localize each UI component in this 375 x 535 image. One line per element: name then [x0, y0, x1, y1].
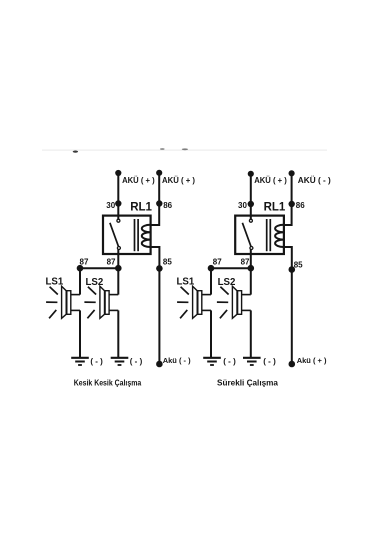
svg-text:85: 85	[294, 260, 303, 269]
wire coil to pin 85	[150, 247, 159, 364]
relay switch top contact	[249, 219, 252, 222]
scan artifact faint top edge line	[42, 150, 327, 151]
svg-text:86: 86	[296, 201, 305, 210]
svg-text:( - ): ( - )	[130, 357, 143, 366]
ground symbol for LS1	[71, 358, 89, 365]
relay switch top contact	[117, 219, 120, 222]
svg-text:RL1: RL1	[130, 201, 152, 213]
node 87 junction left	[78, 266, 83, 271]
svg-text:86: 86	[163, 201, 172, 210]
relay RL1 body	[235, 216, 284, 254]
sound rays of LS1	[177, 287, 189, 319]
node pin 85	[290, 267, 295, 272]
svg-text:85: 85	[163, 257, 172, 266]
loudspeaker LS2	[232, 286, 250, 318]
node 87 junction right	[249, 266, 254, 271]
wire coil to pin 85	[284, 247, 292, 364]
relay coil winding	[275, 225, 284, 247]
node battery terminal Akü ( - )	[157, 362, 162, 367]
svg-text:( - ): ( - )	[223, 357, 236, 366]
sound rays of LS2	[84, 287, 96, 319]
relay switch blade	[242, 223, 251, 247]
node 87 junction right	[116, 266, 121, 271]
wire battery to pin 30	[117, 173, 119, 219]
wire 87 bus	[80, 267, 118, 269]
wire 87 junction to speaker LS1	[210, 268, 212, 294]
svg-text:AKÜ ( + ): AKÜ ( + )	[122, 176, 155, 185]
wire pin 87 from relay	[117, 250, 119, 269]
wire battery to pin 86	[284, 173, 292, 225]
wire speaker LS1 to ground	[79, 310, 81, 357]
ground symbol for LS2	[111, 358, 129, 365]
scan artifact dark dash	[73, 151, 78, 153]
svg-text:AKÜ ( + ): AKÜ ( + )	[254, 176, 287, 185]
wire battery to pin 86	[150, 173, 159, 225]
node battery terminal AKÜ ( + )	[249, 172, 253, 176]
svg-text:87: 87	[241, 258, 250, 267]
relay coil core	[134, 219, 136, 251]
svg-text:AKÜ ( + ): AKÜ ( + )	[162, 176, 195, 185]
loudspeaker LS2	[100, 286, 118, 318]
relay RL1 body	[103, 216, 151, 254]
relay coil core	[266, 219, 268, 251]
node battery terminal Akü ( + )	[290, 362, 295, 367]
wire pin 87 from relay	[250, 250, 252, 269]
svg-text:LS2: LS2	[86, 277, 104, 288]
wire 87 junction to speaker LS2	[117, 268, 119, 294]
svg-text:( - ): ( - )	[263, 357, 276, 366]
svg-text:Akü ( - ): Akü ( - )	[163, 356, 191, 365]
wire 87 bus	[211, 267, 251, 269]
scan artifact gray dash 2	[182, 148, 188, 150]
node battery terminal AKÜ ( - )	[290, 171, 294, 175]
svg-text:LS1: LS1	[177, 276, 195, 287]
node pin 86	[290, 202, 294, 206]
node pin 30	[249, 202, 253, 206]
wire speaker LS2 to ground	[250, 310, 252, 357]
scan artifact gray dash 1	[160, 148, 165, 150]
svg-text:RL1: RL1	[264, 201, 286, 213]
ground symbol for LS1	[203, 358, 221, 365]
sound rays of LS2	[217, 287, 229, 319]
svg-text:87: 87	[80, 258, 89, 267]
svg-text:30: 30	[106, 201, 115, 210]
relay coil winding	[142, 225, 151, 247]
ground symbol for LS2	[243, 358, 261, 365]
svg-text:Kesik Kesik Çalışma: Kesik Kesik Çalışma	[74, 377, 142, 387]
sound rays of LS1	[46, 287, 58, 319]
svg-text:87: 87	[107, 258, 116, 267]
wire speaker LS1 to ground	[210, 310, 212, 357]
svg-text:87: 87	[213, 258, 222, 267]
node 87 junction left	[209, 266, 214, 271]
node pin 85	[157, 266, 162, 271]
loudspeaker LS1	[193, 286, 211, 318]
node pin 30	[116, 201, 120, 205]
relay switch bottom contact	[250, 247, 253, 250]
wire 87 junction to speaker LS1	[79, 268, 81, 294]
node battery terminal AKÜ ( + )	[157, 171, 161, 175]
svg-text:Sürekli Çalışma: Sürekli Çalışma	[217, 377, 278, 387]
node battery terminal AKÜ ( + )	[116, 171, 120, 175]
svg-text:AKÜ ( - ): AKÜ ( - )	[298, 176, 331, 185]
svg-text:30: 30	[238, 201, 247, 210]
svg-text:Akü ( + ): Akü ( + )	[297, 356, 327, 365]
relay switch blade	[110, 223, 119, 247]
relay switch bottom contact	[117, 247, 120, 250]
wire battery to pin 30	[250, 174, 252, 220]
node pin 86	[157, 201, 161, 205]
svg-text:( - ): ( - )	[90, 357, 103, 366]
svg-text:LS1: LS1	[46, 276, 64, 287]
wire 87 junction to speaker LS2	[250, 268, 252, 294]
wire speaker LS2 to ground	[117, 310, 119, 357]
svg-text:LS2: LS2	[218, 277, 236, 288]
loudspeaker LS1	[62, 286, 80, 318]
